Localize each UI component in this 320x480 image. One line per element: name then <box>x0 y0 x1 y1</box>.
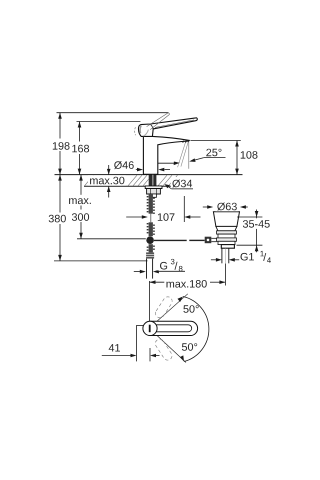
dimension 35-45 <box>237 216 262 218</box>
dimension text max. (of max.300) <box>69 198 91 204</box>
thread text 1 (superscript of G1 1/4) <box>260 251 263 256</box>
mounting shank below deck <box>145 175 162 279</box>
lever stadium outer <box>150 321 198 335</box>
connection tube G3/8 <box>146 259 148 279</box>
raised lever position (thin) <box>135 113 170 135</box>
horizontal pop-up rod to drain <box>154 239 187 241</box>
dimension text 35-45 <box>243 220 270 228</box>
threaded shank through deck <box>149 175 157 186</box>
tail pipe <box>221 248 223 263</box>
dimension G3/8 arrows <box>134 270 185 274</box>
25 degree stream annotation <box>157 141 226 169</box>
dimension text Ø46 <box>114 161 134 169</box>
faucet body and spout (side view) <box>143 136 189 174</box>
dimension text 107 <box>158 213 175 221</box>
dimension 380 (below deck) <box>54 175 148 261</box>
swing arc <box>183 297 209 362</box>
thread text / (of G 3/8) <box>175 262 178 270</box>
thread text 8 (subscript of G 3/8) <box>179 266 183 272</box>
washer flange under deck <box>145 186 162 189</box>
dashed lever positions <box>154 295 174 362</box>
aerator ticks <box>182 141 185 143</box>
wire: 198 reference line at lever top <box>57 112 169 114</box>
angle text 50° (lower) <box>182 343 197 351</box>
dimension max.180 <box>150 264 226 322</box>
ball rod housing <box>205 237 212 244</box>
dimension max.30 arrows <box>107 165 111 198</box>
dimension text Ø34 <box>172 180 192 188</box>
dimension text 108 <box>241 151 258 159</box>
deck bottom line <box>84 185 192 187</box>
50 degree swing centerlines <box>155 294 188 323</box>
dimension text 168 <box>72 145 89 153</box>
dimension text 300 <box>72 213 89 221</box>
counter deck cross-section <box>55 175 243 187</box>
dimension max.300 (below deck) <box>77 175 146 239</box>
dimension 107 <box>126 196 200 222</box>
angle text 50° (upper) <box>183 305 198 313</box>
dimension Ø34 leader <box>165 184 193 189</box>
step fitting <box>152 194 156 197</box>
dimension 168 <box>78 122 82 175</box>
top view <box>102 294 209 363</box>
thread text / (of G1 1/4) <box>263 253 266 261</box>
deck hatching <box>85 175 178 186</box>
angle text 25° <box>206 149 221 157</box>
pop-up drain assembly <box>203 205 263 263</box>
deck top line <box>55 174 243 176</box>
dimension Ø63 <box>203 206 208 208</box>
dimension 41 <box>136 325 138 361</box>
dimension 198 <box>58 113 62 175</box>
drain flange cone <box>213 212 239 227</box>
dimension text 380 <box>49 215 66 223</box>
thread text G1 <box>241 253 254 261</box>
dimension G1 1/4 arrows <box>211 259 216 261</box>
dimension text 41 <box>109 344 120 351</box>
threaded rod <box>149 194 153 214</box>
hex nut <box>147 189 161 195</box>
thread text 3 (superscript of G 3/8) <box>171 259 175 265</box>
ball joint on rod <box>146 236 154 244</box>
wire: 168 reference line <box>77 121 141 123</box>
lever handle (side view) <box>138 118 197 137</box>
hose connector <box>146 252 154 258</box>
dimension Ø46 leader arrows <box>114 168 171 172</box>
dimension text 198 <box>53 142 70 150</box>
clamp rings <box>217 231 237 234</box>
dimension 108 <box>191 141 241 175</box>
dimension text max.180 <box>167 280 207 288</box>
thread text 4 (subscript of G1 1/4) <box>267 257 271 262</box>
dimension text max.30 <box>90 177 124 185</box>
pivot circle <box>143 321 157 335</box>
inner stadium <box>156 325 192 332</box>
dimension text Ø63 <box>217 203 237 211</box>
thread text G (of G 3/8) <box>160 262 167 270</box>
